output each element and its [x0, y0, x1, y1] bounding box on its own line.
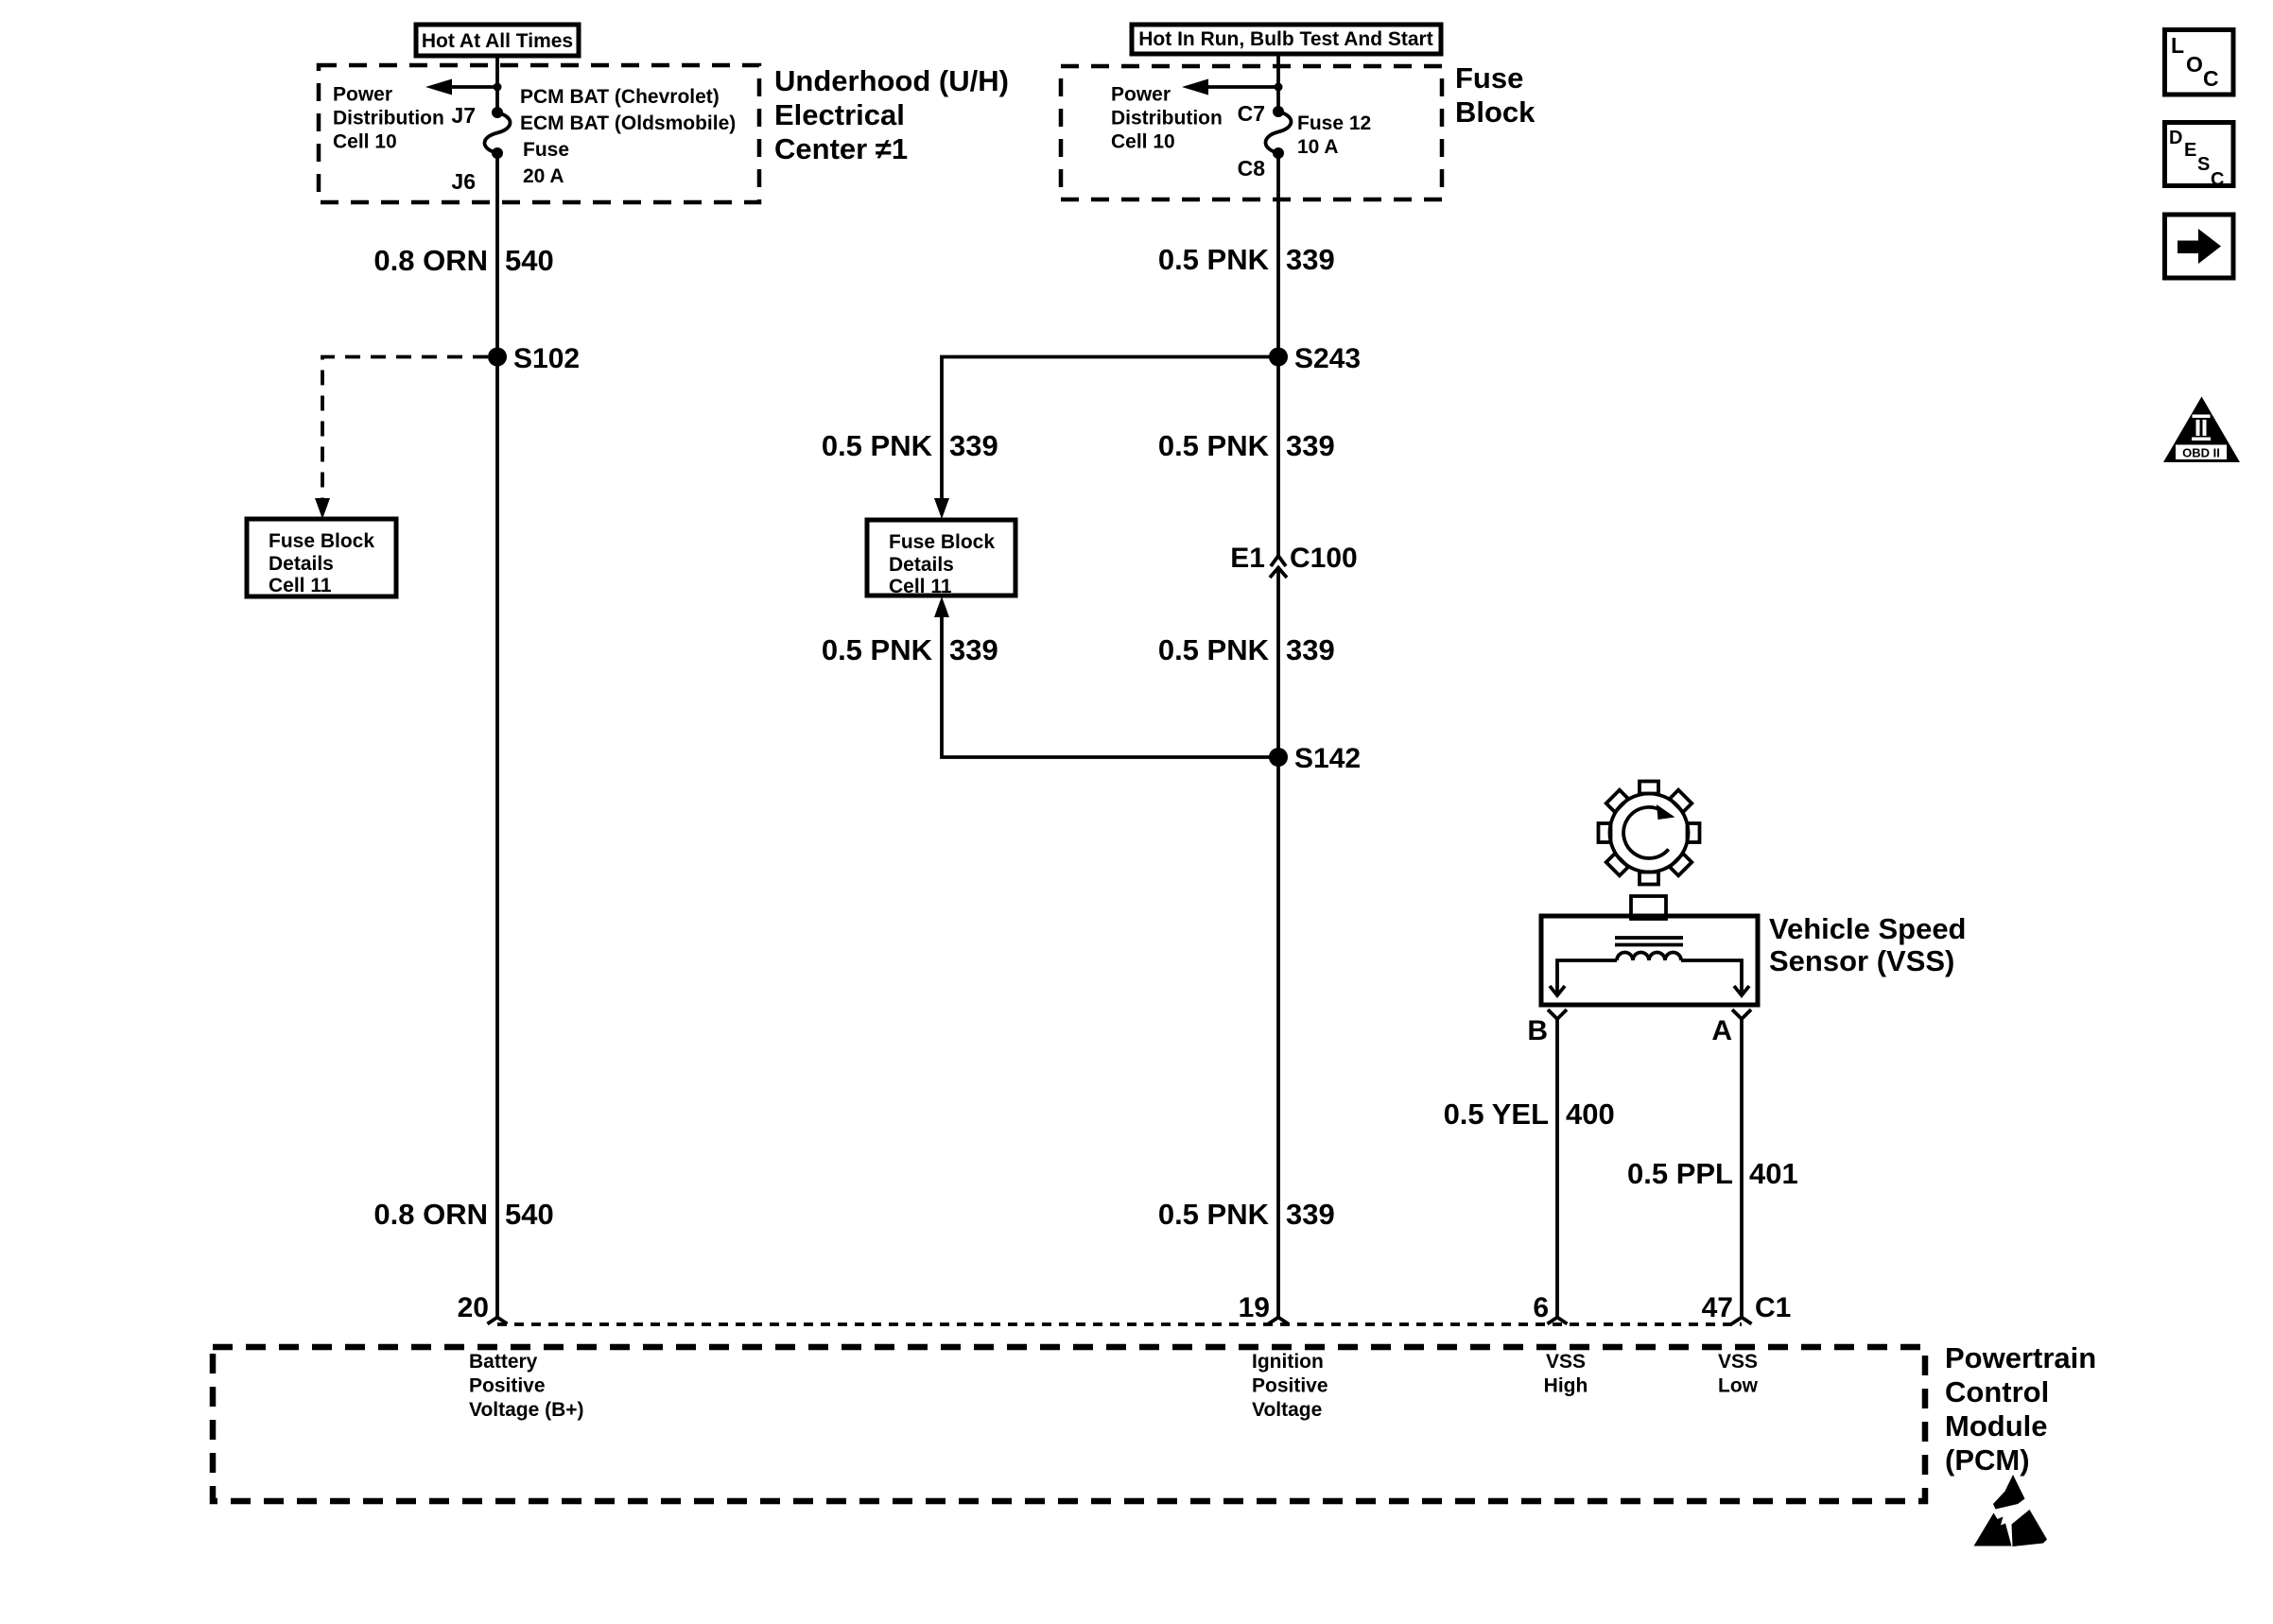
svg-text:VSS: VSS: [1718, 1351, 1758, 1373]
label Powertrain Control Module (PCM): [1945, 1341, 2096, 1477]
svg-text:20 A: 20 A: [523, 165, 564, 187]
fuse PCM BAT / ECM BAT 20 A (J7-J6): [485, 107, 511, 159]
svg-text:ECM BAT (Oldsmobile): ECM BAT (Oldsmobile): [520, 112, 736, 134]
svg-text:OBD II: OBD II: [2182, 446, 2220, 460]
svg-text:C7: C7: [1238, 101, 1265, 126]
label Power Distribution Cell 10 (left): [333, 84, 444, 153]
svg-text:339: 339: [1286, 1198, 1335, 1231]
VSS internal lead to pin A with arrow: [1681, 960, 1749, 995]
svg-text:0.5 PNK: 0.5 PNK: [1158, 243, 1270, 276]
svg-text:6: 6: [1533, 1292, 1549, 1323]
wire: J6 to S102: [495, 153, 499, 356]
svg-text:540: 540: [505, 1198, 554, 1231]
svg-text:(PCM): (PCM): [1945, 1443, 2030, 1477]
svg-text:C1: C1: [1755, 1292, 1791, 1323]
svg-text:540: 540: [505, 244, 554, 277]
svg-text:Electrical: Electrical: [774, 98, 905, 131]
label Fuse Block: [1455, 61, 1536, 129]
splice S102: [488, 343, 580, 374]
label Power Distribution Cell 10 (middle): [1111, 84, 1223, 153]
PCM pin 6 connector fork: [1533, 1292, 1567, 1324]
fuse value label PCM BAT (Chevrolet) ECM BAT (Oldsmobile) Fuse 20 A: [520, 86, 736, 187]
fuse Fuse 12 10 A (C7-C8): [1266, 106, 1292, 159]
LOC icon: [2165, 30, 2234, 95]
svg-text:J7: J7: [451, 103, 476, 128]
svg-text:339: 339: [1286, 243, 1335, 276]
svg-text:Fuse 12: Fuse 12: [1297, 112, 1371, 134]
svg-text:C8: C8: [1238, 156, 1266, 181]
svg-text:Powertrain: Powertrain: [1945, 1341, 2096, 1374]
svg-text:Hot At All Times: Hot At All Times: [422, 30, 573, 52]
svg-text:0.5 PNK: 0.5 PNK: [822, 633, 933, 666]
svg-text:400: 400: [1566, 1097, 1615, 1131]
svg-text:Distribution: Distribution: [1111, 108, 1223, 130]
svg-text:Cell 10: Cell 10: [333, 131, 397, 153]
OBD II symbol: [2163, 397, 2240, 463]
wire: VSS B to PCM pin 6: [1555, 1019, 1559, 1318]
svg-text:High: High: [1544, 1375, 1588, 1397]
wire label 0.5 PNK 339 (row 1): [1158, 243, 1335, 276]
forward arrow icon: [2165, 215, 2234, 278]
svg-text:S: S: [2197, 154, 2210, 175]
svg-text:0.5 PNK: 0.5 PNK: [1158, 1198, 1270, 1231]
svg-text:C: C: [2203, 66, 2219, 91]
svg-text:S142: S142: [1294, 743, 1361, 774]
svg-text:Fuse Block: Fuse Block: [269, 530, 374, 552]
svg-text:Underhood (U/H): Underhood (U/H): [774, 64, 1009, 97]
svg-text:E: E: [2184, 140, 2196, 161]
wire: S243 to connector C100: [1276, 357, 1280, 557]
splice S142: [1269, 743, 1361, 774]
arrow to Power Distribution cell 10 (left): [425, 79, 502, 95]
svg-text:Block: Block: [1455, 95, 1536, 129]
arrow to Power Distribution cell 10 (middle): [1182, 79, 1283, 95]
wire: Hot In Run label to fuse terminal C7: [1276, 54, 1280, 112]
svg-text:19: 19: [1239, 1292, 1270, 1323]
svg-text:L: L: [2171, 33, 2184, 58]
PCM pin 47 connector fork: [1702, 1292, 1752, 1324]
pin function label VSS High: [1544, 1351, 1588, 1397]
svg-text:Battery: Battery: [469, 1351, 538, 1373]
Underhood Electrical Center #1 dashed box: [319, 65, 759, 202]
PCM pin 19 connector fork: [1239, 1292, 1289, 1324]
ESD sensitivity symbol: [1974, 1475, 2048, 1546]
svg-text:339: 339: [949, 429, 998, 462]
svg-text:0.8 ORN: 0.8 ORN: [373, 244, 488, 277]
svg-text:J6: J6: [451, 169, 476, 194]
svg-text:Vehicle Speed: Vehicle Speed: [1769, 912, 1967, 945]
fuse value label Fuse 12 10 A: [1297, 112, 1371, 158]
svg-text:0.5 PPL: 0.5 PPL: [1627, 1157, 1733, 1190]
svg-text:Voltage: Voltage: [1252, 1399, 1322, 1421]
svg-text:Fuse: Fuse: [523, 139, 569, 161]
svg-text:Fuse: Fuse: [1455, 61, 1523, 95]
VSS pin A connector: [1711, 1010, 1751, 1046]
label Vehicle Speed Sensor (VSS): [1769, 912, 1967, 977]
svg-text:Module: Module: [1945, 1409, 2048, 1443]
svg-text:47: 47: [1702, 1292, 1733, 1323]
svg-text:Power: Power: [333, 84, 392, 106]
svg-text:B: B: [1527, 1015, 1548, 1046]
svg-text:Details: Details: [889, 554, 954, 576]
wire: S142 branch up to Fuse Block Details (middle): [934, 596, 1278, 757]
wire label 0.5 PNK 339 (row 3 left): [822, 633, 998, 666]
svg-text:VSS: VSS: [1546, 1351, 1586, 1373]
splice S243: [1269, 343, 1361, 374]
svg-text:E1: E1: [1230, 543, 1265, 574]
svg-text:Cell 11: Cell 11: [269, 575, 332, 596]
svg-text:Low: Low: [1718, 1375, 1759, 1397]
svg-text:Power: Power: [1111, 84, 1171, 106]
VSS sensor stem: [1631, 896, 1666, 919]
wire label 0.5 PNK 339 (row 2 left): [822, 429, 998, 462]
svg-text:0.5 PNK: 0.5 PNK: [822, 429, 933, 462]
Fuse Block Details Cell 11 box (middle): [867, 520, 1015, 597]
svg-text:Hot In Run, Bulb Test And Star: Hot In Run, Bulb Test And Start: [1138, 28, 1432, 50]
VSS core lines: [1615, 938, 1683, 945]
svg-text:Cell 10: Cell 10: [1111, 131, 1175, 153]
svg-text:0.5 PNK: 0.5 PNK: [1158, 429, 1270, 462]
svg-text:C100: C100: [1290, 543, 1358, 574]
pin function label Battery Positive Voltage (B+): [469, 1351, 584, 1421]
svg-text:Voltage (B+): Voltage (B+): [469, 1399, 584, 1421]
svg-text:A: A: [1711, 1015, 1732, 1046]
Fuse Block Details Cell 11 box (left): [247, 519, 396, 596]
svg-text:S243: S243: [1294, 343, 1361, 374]
wire label 0.8 ORN 540 (upper): [373, 244, 553, 277]
Powertrain Control Module dashed box: [213, 1347, 1925, 1501]
DESC icon: [2165, 123, 2234, 191]
svg-text:20: 20: [458, 1292, 489, 1323]
label box "Hot In Run, Bulb Test And Start": [1132, 25, 1441, 54]
pin function label VSS Low: [1718, 1351, 1759, 1397]
label Underhood (U/H) Electrical Center #1: [774, 64, 1009, 165]
connector C100 terminal E1: [1230, 543, 1357, 578]
wire: Hot At All Times label to fuse terminal J7: [495, 56, 499, 112]
svg-text:Positive: Positive: [469, 1375, 546, 1397]
wire: VSS A to PCM pin 47: [1740, 1019, 1744, 1318]
svg-text:Positive: Positive: [1252, 1375, 1328, 1397]
wire: C100 to S142: [1276, 569, 1280, 757]
svg-text:339: 339: [949, 633, 998, 666]
VSS internal lead to pin B with arrow: [1550, 960, 1617, 995]
svg-text:C: C: [2211, 169, 2224, 190]
PCM connector C1 dashed line: [497, 1322, 1742, 1326]
wire label 0.8 ORN 540 (lower): [373, 1198, 553, 1231]
VSS sensor box: [1541, 916, 1758, 1005]
svg-text:Ignition: Ignition: [1252, 1351, 1324, 1373]
wire label 0.5 PNK 339 (bottom): [1158, 1198, 1335, 1231]
svg-text:Center ≠1: Center ≠1: [774, 132, 908, 165]
PCM pin 20 connector fork: [458, 1292, 508, 1324]
VSS coil: [1617, 953, 1681, 961]
svg-text:0.5 YEL: 0.5 YEL: [1444, 1097, 1549, 1131]
svg-text:S102: S102: [513, 343, 580, 374]
wire: S142 to PCM pin 19: [1276, 757, 1280, 1318]
pin function label Ignition Positive Voltage: [1252, 1351, 1328, 1421]
wire label 0.5 PNK 339 (row 2 right): [1158, 429, 1335, 462]
wire: S243 branch to Fuse Block Details (middle): [934, 357, 1278, 520]
svg-text:0.5 PNK: 0.5 PNK: [1158, 633, 1270, 666]
svg-text:PCM BAT (Chevrolet): PCM BAT (Chevrolet): [520, 86, 720, 108]
Fuse Block dashed box: [1061, 66, 1442, 199]
svg-text:Cell 11: Cell 11: [889, 576, 952, 597]
svg-text:401: 401: [1749, 1157, 1798, 1190]
wire label 0.5 YEL 400: [1444, 1097, 1615, 1131]
VSS pin B connector: [1527, 1010, 1567, 1046]
wire label 0.5 PPL 401: [1627, 1157, 1798, 1190]
svg-text:Control: Control: [1945, 1375, 2049, 1408]
svg-text:Sensor (VSS): Sensor (VSS): [1769, 944, 1954, 977]
svg-text:0.8 ORN: 0.8 ORN: [373, 1198, 488, 1231]
svg-text:O: O: [2186, 52, 2203, 77]
label box "Hot At All Times": [416, 25, 579, 56]
svg-text:Distribution: Distribution: [333, 108, 444, 130]
svg-text:10 A: 10 A: [1297, 136, 1339, 158]
svg-text:339: 339: [1286, 429, 1335, 462]
VSS reluctor gear: [1599, 782, 1700, 885]
svg-text:339: 339: [1286, 633, 1335, 666]
svg-text:D: D: [2169, 128, 2182, 148]
wire label 0.5 PNK 339 (row 3 right): [1158, 633, 1335, 666]
svg-text:Fuse Block: Fuse Block: [889, 531, 995, 553]
wire: S102 to PCM pin 20: [495, 357, 499, 1318]
svg-text:Details: Details: [269, 553, 334, 575]
wire: C8 to S243: [1276, 153, 1280, 356]
dashed wire: S102 to Fuse Block Details: [315, 357, 488, 520]
